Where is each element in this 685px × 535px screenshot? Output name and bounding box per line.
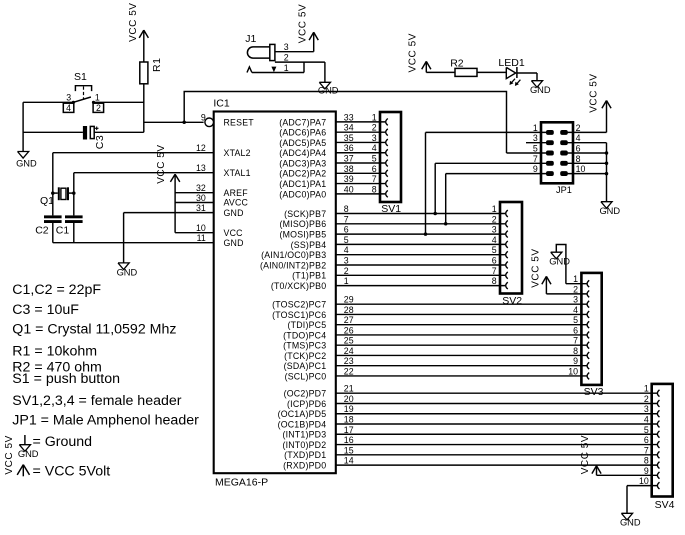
svg-text:37: 37 bbox=[344, 154, 354, 164]
svg-text:R1: R1 bbox=[151, 57, 163, 72]
svg-text:(OC1B)PD4: (OC1B)PD4 bbox=[278, 419, 327, 429]
svg-text:2: 2 bbox=[344, 266, 349, 276]
svg-text:(ADC0)PA0: (ADC0)PA0 bbox=[279, 189, 326, 199]
svg-text:1: 1 bbox=[644, 384, 649, 394]
svg-text:(INT1)PD3: (INT1)PD3 bbox=[282, 430, 326, 440]
svg-text:(TDO)PC4: (TDO)PC4 bbox=[283, 330, 326, 340]
svg-text:9: 9 bbox=[573, 356, 578, 366]
svg-text:5: 5 bbox=[644, 425, 649, 435]
svg-text:2: 2 bbox=[576, 123, 581, 133]
svg-text:1: 1 bbox=[344, 276, 349, 286]
svg-text:5: 5 bbox=[344, 235, 349, 245]
svg-text:24: 24 bbox=[344, 346, 354, 356]
svg-text:VCC 5V: VCC 5V bbox=[588, 73, 599, 112]
svg-text:16: 16 bbox=[344, 435, 354, 445]
svg-text:GND: GND bbox=[599, 206, 620, 216]
svg-text:7: 7 bbox=[644, 445, 649, 455]
svg-text:6: 6 bbox=[372, 164, 377, 174]
svg-text:1: 1 bbox=[95, 93, 100, 103]
svg-text:(ADC2)PA2: (ADC2)PA2 bbox=[279, 169, 326, 179]
svg-text:1: 1 bbox=[372, 112, 377, 122]
svg-text:VCC 5V: VCC 5V bbox=[128, 2, 139, 41]
svg-text:12: 12 bbox=[196, 143, 206, 153]
svg-text:C3: C3 bbox=[94, 135, 106, 150]
svg-text:VCC 5V: VCC 5V bbox=[530, 248, 541, 287]
svg-text:(TDI)PC5: (TDI)PC5 bbox=[288, 320, 327, 330]
svg-text:(SCK)PB7: (SCK)PB7 bbox=[284, 209, 326, 219]
svg-text:XTAL1: XTAL1 bbox=[224, 168, 251, 178]
svg-text:10: 10 bbox=[639, 476, 649, 486]
svg-text:GND: GND bbox=[117, 267, 138, 277]
svg-text:(RXD)PD0: (RXD)PD0 bbox=[283, 460, 326, 470]
svg-text:3: 3 bbox=[533, 133, 538, 143]
svg-text:(INT0)PD2: (INT0)PD2 bbox=[282, 440, 326, 450]
svg-text:GND: GND bbox=[16, 159, 37, 169]
svg-text:(SDA)PC1: (SDA)PC1 bbox=[284, 361, 327, 371]
svg-text:SV2: SV2 bbox=[502, 295, 522, 307]
svg-text:(ADC5)PA5: (ADC5)PA5 bbox=[279, 138, 326, 148]
svg-text:29: 29 bbox=[344, 295, 354, 305]
svg-text:VCC 5V: VCC 5V bbox=[4, 435, 15, 474]
svg-text:VCC 5V: VCC 5V bbox=[580, 435, 591, 474]
svg-text:3: 3 bbox=[492, 225, 497, 235]
svg-text:4: 4 bbox=[573, 305, 578, 315]
svg-text:(SCL)PC0: (SCL)PC0 bbox=[285, 371, 327, 381]
svg-text:40: 40 bbox=[344, 184, 354, 194]
svg-text:25: 25 bbox=[344, 336, 354, 346]
svg-text:1: 1 bbox=[573, 274, 578, 284]
svg-text:34: 34 bbox=[344, 123, 354, 133]
svg-text:6: 6 bbox=[573, 325, 578, 335]
svg-text:S1 = push button: S1 = push button bbox=[12, 371, 120, 387]
svg-text:C1: C1 bbox=[56, 224, 70, 236]
svg-text:1: 1 bbox=[284, 63, 289, 73]
svg-text:4: 4 bbox=[344, 245, 349, 255]
svg-text:5: 5 bbox=[492, 245, 497, 255]
svg-text:J1: J1 bbox=[245, 33, 256, 45]
svg-text:RESET: RESET bbox=[224, 118, 255, 128]
svg-text:7: 7 bbox=[492, 266, 497, 276]
svg-text:14: 14 bbox=[344, 456, 354, 466]
svg-text:GND: GND bbox=[224, 238, 244, 248]
svg-text:5: 5 bbox=[573, 315, 578, 325]
svg-text:31: 31 bbox=[196, 203, 206, 213]
svg-text:6: 6 bbox=[344, 225, 349, 235]
svg-text:9: 9 bbox=[644, 466, 649, 476]
svg-text:36: 36 bbox=[344, 143, 354, 153]
svg-text:13: 13 bbox=[196, 163, 206, 173]
svg-text:JP1: JP1 bbox=[556, 185, 572, 195]
svg-text:= Ground: = Ground bbox=[33, 434, 93, 450]
svg-text:8: 8 bbox=[576, 154, 581, 164]
svg-text:17: 17 bbox=[344, 425, 354, 435]
svg-text:VCC 5V: VCC 5V bbox=[156, 144, 167, 183]
svg-text:VCC 5V: VCC 5V bbox=[298, 4, 309, 43]
svg-text:4: 4 bbox=[372, 143, 377, 153]
svg-text:1: 1 bbox=[492, 204, 497, 214]
svg-text:(MOSI)PB5: (MOSI)PB5 bbox=[280, 230, 327, 240]
svg-text:4: 4 bbox=[644, 415, 649, 425]
svg-text:2: 2 bbox=[644, 394, 649, 404]
svg-text:GND: GND bbox=[18, 449, 39, 459]
svg-text:3: 3 bbox=[644, 404, 649, 414]
svg-text:IC1: IC1 bbox=[213, 97, 230, 109]
svg-text:39: 39 bbox=[344, 174, 354, 184]
svg-text:(SS)PB4: (SS)PB4 bbox=[291, 240, 327, 250]
svg-text:10: 10 bbox=[576, 164, 586, 174]
svg-text:19: 19 bbox=[344, 404, 354, 414]
svg-text:33: 33 bbox=[344, 112, 354, 122]
svg-text:2: 2 bbox=[372, 123, 377, 133]
svg-text:SV1,2,3,4 = female header: SV1,2,3,4 = female header bbox=[12, 393, 181, 409]
svg-text:(TCK)PC2: (TCK)PC2 bbox=[284, 351, 326, 361]
svg-text:(TMS)PC3: (TMS)PC3 bbox=[283, 341, 326, 351]
svg-text:28: 28 bbox=[344, 305, 354, 315]
svg-text:= VCC 5Volt: = VCC 5Volt bbox=[33, 464, 111, 480]
svg-text:XTAL2: XTAL2 bbox=[224, 148, 251, 158]
svg-text:GND: GND bbox=[318, 86, 339, 96]
svg-text:(MISO)PB6: (MISO)PB6 bbox=[280, 219, 327, 229]
svg-text:LED1: LED1 bbox=[498, 57, 524, 69]
svg-text:2: 2 bbox=[284, 53, 289, 63]
svg-text:R2: R2 bbox=[450, 58, 464, 70]
svg-text:26: 26 bbox=[344, 325, 354, 335]
svg-text:(TXD)PD1: (TXD)PD1 bbox=[284, 450, 326, 460]
svg-text:(ADC1)PA1: (ADC1)PA1 bbox=[279, 179, 326, 189]
svg-text:MEGA16-P: MEGA16-P bbox=[215, 477, 268, 489]
svg-text:(OC1A)PD5: (OC1A)PD5 bbox=[278, 409, 327, 419]
svg-text:6: 6 bbox=[492, 256, 497, 266]
svg-text:JP1 = Male Amphenol header: JP1 = Male Amphenol header bbox=[12, 412, 199, 428]
svg-text:4: 4 bbox=[576, 133, 581, 143]
svg-text:C1,C2 = 22pF: C1,C2 = 22pF bbox=[12, 282, 101, 298]
svg-text:(T1)PB1: (T1)PB1 bbox=[292, 271, 326, 281]
svg-text:SV3: SV3 bbox=[584, 386, 604, 398]
svg-text:6: 6 bbox=[644, 435, 649, 445]
svg-text:SV4: SV4 bbox=[655, 499, 675, 511]
svg-text:(AIN0/INT2)PB2: (AIN0/INT2)PB2 bbox=[260, 260, 326, 270]
svg-text:32: 32 bbox=[196, 183, 206, 193]
svg-text:11: 11 bbox=[197, 233, 206, 243]
svg-text:10: 10 bbox=[196, 223, 206, 233]
svg-text:VCC: VCC bbox=[224, 228, 244, 238]
svg-text:(TOSC2)PC7: (TOSC2)PC7 bbox=[272, 300, 326, 310]
svg-text:23: 23 bbox=[344, 356, 354, 366]
svg-text:(ADC6)PA6: (ADC6)PA6 bbox=[279, 128, 326, 138]
svg-text:(AIN1/OC0)PB3: (AIN1/OC0)PB3 bbox=[261, 250, 326, 260]
svg-text:8: 8 bbox=[644, 456, 649, 466]
svg-text:R1 = 10kohm: R1 = 10kohm bbox=[12, 343, 97, 359]
svg-text:(ICP)PD6: (ICP)PD6 bbox=[287, 399, 326, 409]
svg-text:Q1 = Crystal 11,0592 Mhz: Q1 = Crystal 11,0592 Mhz bbox=[12, 322, 176, 338]
svg-text:8: 8 bbox=[372, 184, 377, 194]
svg-text:27: 27 bbox=[344, 315, 354, 325]
svg-text:GND: GND bbox=[549, 257, 570, 267]
svg-text:2: 2 bbox=[573, 284, 578, 294]
svg-text:3: 3 bbox=[344, 256, 349, 266]
svg-text:4: 4 bbox=[492, 235, 497, 245]
svg-text:9: 9 bbox=[533, 164, 538, 174]
svg-text:3: 3 bbox=[284, 42, 289, 52]
svg-text:AVCC: AVCC bbox=[224, 198, 249, 208]
svg-text:1: 1 bbox=[533, 123, 538, 133]
svg-text:VCC 5V: VCC 5V bbox=[407, 33, 418, 72]
svg-text:C3 = 10uF: C3 = 10uF bbox=[12, 302, 79, 318]
svg-text:3: 3 bbox=[573, 295, 578, 305]
svg-text:3: 3 bbox=[66, 93, 71, 103]
svg-text:20: 20 bbox=[344, 394, 354, 404]
svg-text:2: 2 bbox=[492, 214, 497, 224]
svg-text:S1: S1 bbox=[74, 71, 87, 83]
svg-text:7: 7 bbox=[344, 214, 349, 224]
svg-text:GND: GND bbox=[620, 518, 641, 528]
svg-text:5: 5 bbox=[372, 154, 377, 164]
svg-text:C2: C2 bbox=[35, 224, 49, 236]
svg-text:4: 4 bbox=[66, 103, 71, 113]
svg-text:8: 8 bbox=[344, 204, 349, 214]
svg-text:(ADC7)PA7: (ADC7)PA7 bbox=[279, 117, 326, 127]
svg-text:8: 8 bbox=[492, 276, 497, 286]
svg-text:10: 10 bbox=[568, 366, 578, 376]
svg-text:15: 15 bbox=[344, 445, 354, 455]
svg-text:8: 8 bbox=[573, 346, 578, 356]
svg-text:3: 3 bbox=[372, 133, 377, 143]
svg-text:7: 7 bbox=[533, 154, 538, 164]
svg-text:GND: GND bbox=[530, 85, 551, 95]
svg-text:30: 30 bbox=[196, 193, 206, 203]
svg-text:38: 38 bbox=[344, 164, 354, 174]
svg-text:AREF: AREF bbox=[224, 188, 249, 198]
svg-text:7: 7 bbox=[372, 174, 377, 184]
svg-text:22: 22 bbox=[344, 366, 354, 376]
svg-text:(ADC4)PA4: (ADC4)PA4 bbox=[279, 148, 326, 158]
svg-text:18: 18 bbox=[344, 415, 354, 425]
svg-text:5: 5 bbox=[533, 144, 538, 154]
svg-text:2: 2 bbox=[96, 103, 101, 113]
svg-text:21: 21 bbox=[344, 384, 354, 394]
svg-text:35: 35 bbox=[344, 133, 354, 143]
svg-text:7: 7 bbox=[573, 336, 578, 346]
svg-text:(T0/XCK)PB0: (T0/XCK)PB0 bbox=[271, 281, 326, 291]
svg-text:(TOSC1)PC6: (TOSC1)PC6 bbox=[272, 310, 326, 320]
svg-text:6: 6 bbox=[576, 144, 581, 154]
svg-text:(OC2)PD7: (OC2)PD7 bbox=[284, 389, 327, 399]
svg-text:GND: GND bbox=[224, 208, 244, 218]
svg-text:(ADC3)PA3: (ADC3)PA3 bbox=[279, 158, 326, 168]
svg-text:Q1: Q1 bbox=[40, 195, 54, 207]
